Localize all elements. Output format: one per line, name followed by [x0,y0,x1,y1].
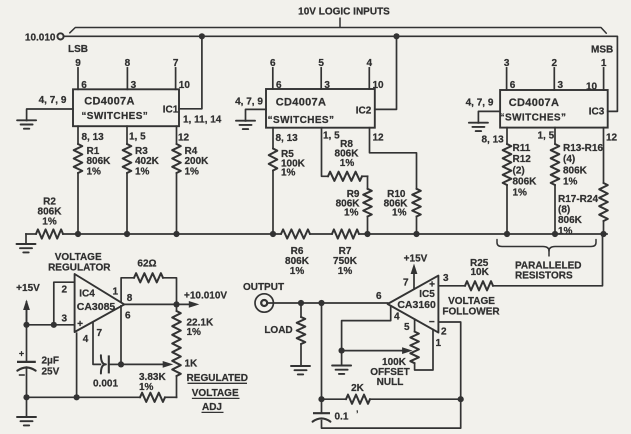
ground at IC3 [469,123,488,131]
svg-text:LSB: LSB [68,44,88,55]
svg-text:(2): (2) [513,165,525,176]
wire: summing bus line [63,233,281,235]
wire: rail below cap to ground [26,367,28,417]
svg-text:RESISTORS: RESISTORS [515,271,573,282]
svg-text:0.1: 0.1 [335,412,349,423]
svg-text:1, 5: 1, 5 [323,131,340,142]
wire: reference drop to IC2 pins 1,11,14 [375,36,397,109]
svg-text:2µF: 2µF [42,356,59,367]
svg-text:1%: 1% [87,167,102,178]
svg-text:2: 2 [61,285,67,296]
svg-text:4, 7, 9: 4, 7, 9 [466,98,494,109]
svg-text:4: 4 [367,58,373,69]
svg-text:4, 7, 9: 4, 7, 9 [39,95,67,106]
svg-text:“SWITCHES”: “SWITCHES” [81,111,148,122]
svg-text:1%: 1% [344,208,359,219]
IC1 logic input pin 8 [126,68,128,89]
IC1 CD4007A box [73,89,179,126]
resistor R10 806K 1% [370,128,417,189]
wire: 10.010V reference line to IC3 [64,36,618,111]
wire: feedback drop to 2K and 0.1 cap [321,303,323,413]
svg-text:IC2: IC2 [356,106,372,117]
op-amp IC4 CA3085 regulator [75,274,125,332]
svg-text:IC3: IC3 [589,107,605,118]
wire: bottom return line [27,396,141,398]
svg-text:CD4007A: CD4007A [276,97,326,109]
capacitor 0.001 [101,355,106,373]
IC2 CD4007A box [266,89,375,128]
svg-text:10: 10 [179,80,191,91]
svg-text:1: 1 [601,58,607,69]
svg-text:8, 13: 8, 13 [276,133,299,144]
svg-text:R11: R11 [513,143,531,154]
svg-text:1%: 1% [338,266,353,277]
svg-text:−: − [429,317,435,328]
svg-text:1%: 1% [513,188,528,199]
IC3 CD4007A box [500,90,608,128]
svg-text:FOLLOWER: FOLLOWER [442,306,500,317]
svg-text:(4): (4) [563,154,575,165]
svg-text:402K: 402K [135,156,160,167]
svg-text:62Ω: 62Ω [137,259,156,270]
wire: offset null wiper [339,348,345,354]
svg-text:ADJ: ADJ [202,402,222,413]
svg-text:806K: 806K [558,215,583,226]
svg-text:2K: 2K [351,383,365,394]
resistor R13-R16 (4) 806K 1% [554,128,556,144]
svg-text:3: 3 [131,80,137,91]
svg-text:5: 5 [404,322,410,333]
svg-text:1, 5: 1, 5 [129,132,146,143]
svg-text:10: 10 [586,82,598,93]
wire: R25 to bus [493,234,603,286]
svg-text:6: 6 [276,80,282,91]
svg-text:10.010: 10.010 [25,32,56,43]
svg-text:6: 6 [81,80,87,91]
IC1 logic input pin 9 [77,68,79,89]
resistor R5 100K 1% [272,128,274,149]
ground at R2 [25,234,27,244]
svg-text:9: 9 [75,58,81,69]
svg-text:10: 10 [373,80,385,91]
svg-text:2: 2 [441,327,447,338]
svg-text:CD4007A: CD4007A [84,95,134,107]
svg-text:CA3085: CA3085 [77,301,116,313]
svg-text:6: 6 [376,291,382,302]
svg-text:1%: 1% [392,208,407,219]
svg-text:12: 12 [178,133,190,144]
svg-text:1: 1 [112,287,118,298]
wire: bus between R6 and R7 [310,233,332,235]
capacitor C 2uF 25V electrolytic [17,361,36,363]
junction at load [298,300,304,306]
svg-text:3: 3 [558,80,564,91]
svg-text:200K: 200K [185,156,210,167]
svg-text:LOAD: LOAD [264,325,292,336]
svg-text:6: 6 [270,58,276,69]
svg-text:3: 3 [324,80,330,91]
wire: 1K wiper from pin 6/7 node [121,363,164,365]
svg-text:+: + [429,279,435,290]
op-amp U IC5 CA3160 voltage follower [388,276,439,333]
svg-text:7: 7 [403,278,409,289]
svg-text:+: + [19,348,24,358]
capacitor 0.1 [313,412,330,414]
resistor R11 R12 (2) 806K 1% [506,128,508,144]
ground at IC2 [236,121,255,129]
resistor 22.1K 1% and potentiometer 1K [176,304,178,311]
svg-text:1%: 1% [563,176,578,187]
brace: paralleled resistors [497,240,596,252]
svg-text:R13-R16: R13-R16 [563,143,603,154]
wire: reference drop to IC1 pins 1,11,14 [179,36,202,109]
svg-text:REGULATOR: REGULATOR [48,262,111,273]
svg-text:4: 4 [394,312,400,323]
IC2 logic input pin 4 [368,68,370,89]
ground at IC1 [17,120,36,128]
svg-text:+10.010V: +10.010V [184,290,227,301]
resistor R9 806K 1% [367,176,369,189]
wire: IC2 pins 4,7,9 to ground [246,109,267,121]
svg-text:VOLTAGE: VOLTAGE [192,388,239,399]
svg-text:6: 6 [125,310,131,321]
svg-text:NULL: NULL [377,377,404,388]
IC2 logic input pin 5 [320,68,322,89]
resistor R17-R24 (8) 806K 1% [603,128,605,183]
junction at regulator output [173,301,179,307]
resistor R1 806K 1% [77,126,79,144]
IC3 logic input pin 3 [506,68,508,90]
junction on reference line at IC1 drop [199,33,205,39]
ground at IC5 pin 4 [332,366,351,374]
svg-text:R12: R12 [513,154,532,165]
IC3 logic input pin 2 [553,68,555,90]
svg-text:1%: 1% [558,226,573,237]
svg-text:6: 6 [510,80,516,91]
svg-text:8, 13: 8, 13 [82,132,105,143]
svg-text:1%: 1% [187,327,202,338]
IC2 logic input pin 6 [272,68,274,89]
svg-text:3: 3 [61,314,67,325]
svg-text:+: + [77,319,83,330]
svg-text:5: 5 [318,58,324,69]
svg-text:3: 3 [443,273,449,284]
svg-text:IC4: IC4 [79,288,95,299]
svg-text:806K: 806K [87,156,112,167]
svg-text:1%: 1% [281,168,296,179]
svg-text:3: 3 [504,58,510,69]
junction at feedback branch [318,300,324,306]
IC3 logic input pin 1 [603,68,605,90]
svg-text:0.001: 0.001 [93,379,118,390]
resistor R4 200K 1% [176,126,178,144]
resistor R3 402K 1% [126,126,128,144]
resistor 3.83K 1% [140,393,165,402]
svg-text:25V: 25V [42,367,60,378]
svg-text:“SWITCHES”: “SWITCHES” [500,113,567,124]
junction 2K left [318,396,324,402]
svg-text:12: 12 [606,133,618,144]
svg-text:1%: 1% [42,217,57,228]
wire: IC3 pins 4,7,9 to ground [478,111,500,123]
svg-text:10K: 10K [471,267,490,278]
svg-text:1, 11, 14: 1, 11, 14 [183,115,222,126]
svg-text:1, 5: 1, 5 [538,131,555,142]
svg-text:1K: 1K [185,359,199,370]
wire: IC1 pins 4,7,9 to ground [27,109,73,121]
svg-text:“SWITCHES”: “SWITCHES” [268,115,335,126]
svg-text:10V LOGIC INPUTS: 10V LOGIC INPUTS [298,7,390,18]
svg-text:806K: 806K [513,176,538,187]
svg-text:8: 8 [127,293,133,304]
svg-text:1%: 1% [185,167,200,178]
svg-text:4: 4 [83,334,89,345]
svg-text:1%: 1% [135,167,150,178]
svg-text:8, 13: 8, 13 [482,135,505,146]
svg-text:CD4007A: CD4007A [509,97,559,109]
junction 2K right [458,396,464,402]
resistor R7 750K 1% [332,229,359,238]
svg-text:CA3160: CA3160 [397,299,436,311]
svg-text:1: 1 [436,338,442,349]
svg-text:4, 7, 9: 4, 7, 9 [235,97,263,108]
svg-text:(8): (8) [558,205,570,216]
svg-text:8: 8 [125,58,131,69]
svg-text:7: 7 [97,328,103,339]
svg-text:2: 2 [552,58,558,69]
wire: bus from R7 to paralleled resistors [359,233,607,235]
svg-text:OUTPUT: OUTPUT [243,282,284,293]
ground at -15V rail bottom [17,417,36,425]
svg-text:1%: 1% [290,266,305,277]
ground at load [291,366,310,374]
bracket over logic inputs [70,28,607,34]
svg-text:806K: 806K [563,165,588,176]
wire: +15V rail [26,302,28,325]
svg-text:R17-R24: R17-R24 [558,194,598,205]
svg-text:’: ’ [356,409,359,419]
svg-text:1%: 1% [340,158,355,169]
resistor R6 806K 1% [281,229,310,238]
svg-text:MSB: MSB [591,44,613,55]
svg-text:12: 12 [373,133,385,144]
svg-text:+15V: +15V [16,283,40,294]
svg-text:1%: 1% [139,382,154,393]
IC1 logic input pin 7 [175,68,177,89]
svg-text:IC1: IC1 [163,105,179,116]
resistor R8 806K 1% [322,128,329,177]
svg-text:REGULATED: REGULATED [187,373,248,384]
svg-text:+15V: +15V [404,253,428,264]
svg-text:7: 7 [173,58,179,69]
junction on reference line at IC2 drop [393,33,399,39]
